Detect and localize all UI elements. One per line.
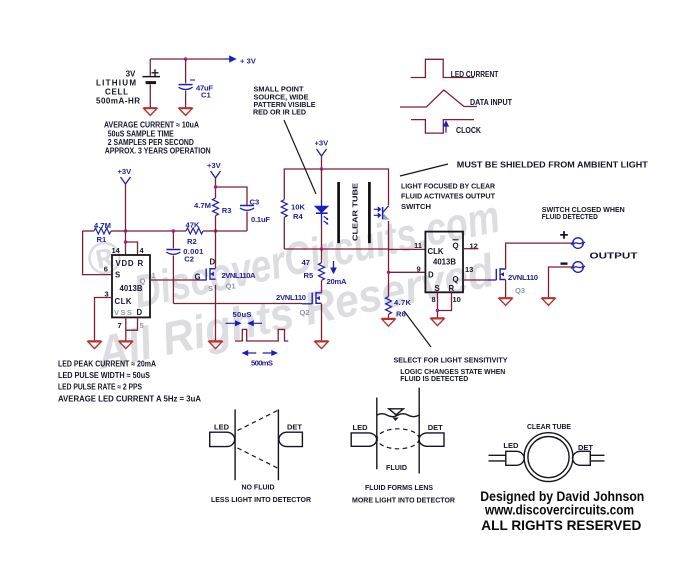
svg-text:C1: C1 bbox=[201, 91, 211, 100]
wire R pin10 to S bbox=[438, 292, 452, 310]
wire VSS pin7 down bbox=[125, 317, 127, 341]
ground VSS bbox=[119, 341, 133, 349]
wire Q3 source to ground bbox=[505, 280, 507, 298]
wire Q pin13 to Q3 gate bbox=[463, 279, 488, 281]
waveform clock legend bbox=[411, 120, 474, 134]
svg-text:LED: LED bbox=[214, 423, 230, 432]
pointer line shield bbox=[400, 164, 448, 176]
svg-text:14: 14 bbox=[112, 246, 121, 255]
svg-text:R2: R2 bbox=[187, 237, 197, 246]
svg-text:LED: LED bbox=[503, 441, 519, 450]
diagram clear tube: outer circle bbox=[524, 433, 573, 482]
svg-text:VDD: VDD bbox=[116, 259, 134, 268]
waveform LED current legend bbox=[411, 59, 474, 77]
node S/R junction bbox=[436, 309, 439, 312]
ground Q3 bbox=[499, 298, 513, 306]
svg-text:CLEAR TUBE: CLEAR TUBE bbox=[351, 183, 360, 241]
resistor R3 4.7M bbox=[213, 198, 219, 216]
node R3 top / C3 branch bbox=[214, 185, 217, 188]
wire R1 to S pin6 bbox=[83, 231, 112, 275]
waveform data input legend bbox=[400, 90, 477, 107]
svg-text:D: D bbox=[428, 270, 434, 279]
LED D1 bbox=[315, 206, 328, 224]
svg-text:R: R bbox=[138, 259, 144, 268]
node LED cathode bottom rail bbox=[320, 247, 323, 250]
wire right edge to R6 bbox=[388, 249, 390, 297]
svg-text:47K: 47K bbox=[186, 220, 201, 229]
svg-text:CLEAR TUBE: CLEAR TUBE bbox=[527, 422, 571, 431]
svg-text:2VNL110: 2VNL110 bbox=[508, 273, 538, 282]
wire down to R5 bbox=[321, 249, 323, 263]
svg-text:Q2: Q2 bbox=[300, 308, 310, 317]
svg-text:0.1uF: 0.1uF bbox=[251, 215, 270, 224]
svg-text:D: D bbox=[210, 258, 216, 267]
watermark bbox=[82, 190, 504, 379]
diagram no fluid: dashed spread rays bbox=[238, 411, 278, 431]
svg-text:DET: DET bbox=[287, 423, 302, 432]
wire Q3 drain up and to + terminal bbox=[506, 243, 573, 269]
svg-text:APPROX. 3 YEARS OPERATION: APPROX. 3 YEARS OPERATION bbox=[105, 147, 211, 156]
ground - terminal bbox=[542, 298, 556, 306]
svg-text:LED: LED bbox=[353, 423, 369, 432]
transistor Q3 2VNL110 bbox=[496, 269, 505, 280]
svg-text:9: 9 bbox=[417, 264, 421, 273]
svg-text:LED PULSE RATE ≈ 2 PPS: LED PULSE RATE ≈ 2 PPS bbox=[58, 382, 143, 391]
svg-text:2 SAMPLES PER SECOND: 2 SAMPLES PER SECOND bbox=[108, 138, 194, 147]
node C2 top bbox=[172, 229, 175, 232]
wire R6 node to D pin9 bbox=[389, 271, 426, 273]
transistor Q1 2VNL110A bbox=[206, 269, 215, 280]
capacitor C3 0.1uF bbox=[240, 206, 254, 211]
arrow 500mS left bbox=[243, 351, 256, 355]
arrow 500mS right bbox=[263, 351, 277, 355]
diagram no fluid: DET bullet bbox=[279, 432, 303, 446]
detector box frame bbox=[284, 169, 388, 249]
svg-text:S: S bbox=[208, 284, 213, 293]
svg-text:RED OR IR LED: RED OR IR LED bbox=[253, 107, 307, 116]
svg-text:500mS: 500mS bbox=[251, 358, 273, 367]
svg-text:S: S bbox=[435, 284, 440, 293]
wire branch to C3 top bbox=[216, 187, 248, 205]
svg-text:Q1: Q1 bbox=[226, 282, 237, 291]
svg-text:R4: R4 bbox=[293, 212, 303, 221]
svg-text:LIGHT FOCUSED BY CLEAR: LIGHT FOCUSED BY CLEAR bbox=[401, 181, 496, 190]
diagram fluid: DET bullet bbox=[419, 433, 444, 446]
svg-text:+3V: +3V bbox=[118, 167, 133, 176]
wire - terminal to ground bbox=[549, 267, 573, 298]
wire rail to C3 bbox=[216, 230, 248, 232]
node D stub bbox=[387, 271, 390, 274]
svg-text:Q: Q bbox=[453, 242, 459, 251]
wire +3V down to VDD bbox=[125, 184, 127, 255]
svg-text:NO FLUID: NO FLUID bbox=[242, 482, 276, 491]
svg-text:LED CURRENT: LED CURRENT bbox=[451, 70, 499, 79]
svg-text:10: 10 bbox=[453, 295, 461, 304]
svg-text:13: 13 bbox=[465, 265, 473, 274]
svg-text:MUST BE SHIELDED FROM AMBIENT: MUST BE SHIELDED FROM AMBIENT LIGHT bbox=[457, 160, 648, 169]
resistor R4 10K bbox=[281, 200, 287, 218]
svg-text:4013B: 4013B bbox=[120, 284, 143, 293]
svg-text:DATA INPUT: DATA INPUT bbox=[470, 98, 512, 107]
water level symbol bbox=[389, 409, 404, 415]
diagram clear tube: inner circle bbox=[528, 437, 569, 478]
wire rail R1 to R2 bbox=[126, 230, 187, 232]
svg-text:2VNL110A: 2VNL110A bbox=[222, 271, 257, 280]
svg-text:+3V: +3V bbox=[207, 161, 222, 170]
svg-text:OUTPUT: OUTPUT bbox=[590, 252, 638, 261]
wire D pin5 to VSS bbox=[126, 317, 138, 330]
arrow 50uS left bbox=[226, 321, 241, 325]
svg-text:LED PULSE WIDTH ≈ 50uS: LED PULSE WIDTH ≈ 50uS bbox=[58, 371, 151, 380]
node R1 rail at x125.5 bbox=[124, 229, 127, 232]
wire S pin8 down bbox=[437, 292, 439, 318]
svg-text:3V: 3V bbox=[126, 70, 136, 79]
svg-text:FLUID ACTIVATES OUTPUT: FLUID ACTIVATES OUTPUT bbox=[401, 192, 495, 201]
svg-text:CELL: CELL bbox=[105, 88, 128, 97]
node box top LED bbox=[320, 167, 323, 170]
wire CLK pin3 bbox=[95, 298, 113, 342]
svg-text:C2: C2 bbox=[184, 255, 194, 264]
resistor R1 4.7M bbox=[83, 230, 94, 232]
capacitor C1 bbox=[179, 59, 195, 108]
wire LED anode bbox=[321, 169, 323, 200]
svg-text:8: 8 bbox=[432, 295, 436, 304]
svg-text:11: 11 bbox=[414, 241, 422, 250]
svg-text:7: 7 bbox=[118, 321, 122, 330]
arrow to +3V top bbox=[223, 56, 236, 61]
svg-text:C3: C3 bbox=[250, 198, 260, 207]
svg-text:R6: R6 bbox=[396, 309, 406, 318]
svg-text:FLUID DETECTED: FLUID DETECTED bbox=[542, 212, 598, 221]
resistor R6 4.7K bbox=[386, 297, 392, 315]
ground C1 bbox=[179, 108, 193, 116]
wire Q pin1 to Q1 gate bbox=[150, 279, 198, 281]
+3V above LED bbox=[317, 149, 327, 156]
svg-text:4013B: 4013B bbox=[433, 257, 456, 266]
diagram no fluid: tube walls bbox=[235, 409, 278, 480]
svg-text:FLUID FORMS LENS: FLUID FORMS LENS bbox=[365, 483, 433, 492]
arrow 50uS right bbox=[249, 321, 263, 325]
wire +3V to R3 top bbox=[215, 178, 217, 198]
svg-text:DET: DET bbox=[578, 443, 593, 452]
svg-text:CLK: CLK bbox=[115, 297, 132, 306]
svg-text:LED PEAK CURRENT ≈ 20mA: LED PEAK CURRENT ≈ 20mA bbox=[58, 359, 156, 368]
svg-text:500mA-HR: 500mA-HR bbox=[96, 97, 140, 106]
terminal + output bbox=[571, 238, 585, 249]
node R2/R3/C3 bbox=[214, 229, 217, 232]
minus sign bbox=[561, 262, 568, 264]
wire +3V rail top bbox=[150, 58, 222, 60]
svg-text:50uS SAMPLE TIME: 50uS SAMPLE TIME bbox=[108, 129, 175, 138]
svg-text:2VNL110: 2VNL110 bbox=[276, 293, 306, 302]
+3V symbol above IC1 bbox=[121, 177, 131, 184]
svg-text:20mA: 20mA bbox=[327, 277, 348, 286]
svg-text:CLOCK: CLOCK bbox=[456, 126, 481, 135]
svg-text:LITHIUM: LITHIUM bbox=[96, 79, 136, 88]
diagram no fluid: LED bullet bbox=[210, 432, 235, 446]
svg-text:R5: R5 bbox=[304, 271, 314, 280]
plus sign bbox=[560, 231, 568, 239]
resistor R5 47 bbox=[319, 263, 325, 281]
node VDD branch bbox=[124, 240, 127, 243]
svg-text:LESS LIGHT INTO DETECTOR: LESS LIGHT INTO DETECTOR bbox=[211, 495, 312, 504]
wire box corner to CLK pin11 bbox=[389, 248, 426, 250]
wire C2 to Q2 gate bbox=[173, 303, 302, 305]
svg-text:G: G bbox=[195, 273, 201, 282]
clear tube bar left bbox=[337, 182, 340, 243]
svg-text:4.7M: 4.7M bbox=[194, 201, 211, 210]
diagram fluid: tube walls bbox=[377, 388, 419, 474]
svg-text:AVERAGE LED CURRENT A 5Hz = 3u: AVERAGE LED CURRENT A 5Hz = 3uA bbox=[58, 395, 201, 404]
diagram fluid: LED bullet bbox=[351, 433, 376, 446]
svg-text:SELECT FOR LIGHT SENSITIVITY: SELECT FOR LIGHT SENSITIVITY bbox=[394, 355, 508, 364]
svg-text:4.7K: 4.7K bbox=[394, 298, 412, 307]
svg-text:50uS: 50uS bbox=[233, 310, 252, 319]
svg-text:S: S bbox=[115, 271, 120, 280]
ground R6 bbox=[382, 319, 396, 327]
diagram clear tube: LED bullet bbox=[506, 451, 524, 465]
terminal - output bbox=[571, 262, 585, 273]
wire branch to pin 4 R bbox=[126, 242, 138, 255]
svg-text:Q: Q bbox=[453, 275, 459, 284]
svg-text:www.discovercircuits.com: www.discovercircuits.com bbox=[484, 502, 634, 518]
wire Qbar pin12 stub bbox=[463, 248, 478, 250]
wire +3V to box bbox=[321, 156, 323, 169]
svg-text:+ 3V: + 3V bbox=[240, 57, 257, 66]
svg-text:D: D bbox=[137, 308, 143, 317]
ground Q1 source bbox=[209, 341, 223, 349]
node top rail / C1 junction bbox=[184, 57, 187, 60]
op-amp? no: IC U1 4013B flip-flop box bbox=[112, 255, 150, 317]
svg-text:FLUID IS DETECTED: FLUID IS DETECTED bbox=[400, 374, 469, 383]
svg-text:47: 47 bbox=[302, 258, 310, 267]
capacitor C2 0.001 bbox=[172, 231, 174, 248]
transistor Q2 2VNL110 bbox=[312, 293, 321, 304]
battery B1 3V lithium cell bbox=[142, 59, 160, 108]
svg-text:Q3: Q3 bbox=[515, 286, 525, 295]
svg-text:R3: R3 bbox=[222, 206, 232, 215]
pointer line sensitivity bbox=[404, 311, 431, 347]
svg-text:4.7M: 4.7M bbox=[94, 221, 111, 230]
arrow 20mA bbox=[331, 261, 336, 273]
ground IC2 S/R bbox=[431, 318, 445, 326]
svg-text:R1: R1 bbox=[97, 235, 107, 244]
svg-text:VSS: VSS bbox=[114, 308, 132, 317]
arrow clock edge bbox=[444, 122, 448, 133]
svg-text:MORE LIGHT INTO DETECTOR: MORE LIGHT INTO DETECTOR bbox=[352, 495, 456, 504]
svg-text:+3V: +3V bbox=[315, 139, 330, 148]
resistor R2 47K bbox=[186, 228, 203, 234]
svg-text:DET: DET bbox=[428, 423, 443, 432]
diagram clear tube: DET bullet bbox=[573, 451, 591, 465]
photodiode detector bbox=[374, 206, 390, 220]
diagram fluid: water surface bbox=[377, 414, 419, 417]
svg-text:ALL RIGHTS RESERVED: ALL RIGHTS RESERVED bbox=[481, 517, 641, 533]
svg-text:FLUID: FLUID bbox=[386, 463, 408, 472]
svg-text:SWITCH: SWITCH bbox=[401, 202, 431, 211]
svg-text:R: R bbox=[449, 284, 455, 293]
svg-text:CLK: CLK bbox=[428, 247, 444, 256]
clear tube bar right bbox=[368, 182, 371, 243]
waveform pulse train bbox=[235, 329, 288, 341]
wire node R2R3 down to Q1 drain bbox=[215, 231, 217, 341]
ground CLK bbox=[88, 341, 102, 349]
ground Q2 source bbox=[315, 341, 329, 349]
diagram fluid: dashed lens bbox=[377, 429, 419, 449]
svg-text:10K: 10K bbox=[291, 203, 306, 212]
svg-text:6: 6 bbox=[104, 265, 108, 274]
+3V symbol above R3 bbox=[211, 171, 221, 178]
ground battery bbox=[143, 108, 157, 116]
IC U2 4013B flip-flop box bbox=[425, 232, 463, 293]
wire Q2 source to ground bbox=[321, 304, 323, 341]
pointer line to LED bbox=[284, 120, 316, 194]
svg-text:AVERAGE CURRENT ≈ 10uA: AVERAGE CURRENT ≈ 10uA bbox=[104, 121, 199, 130]
